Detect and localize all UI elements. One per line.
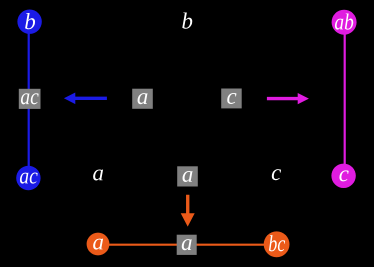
node a (orange circle, bottom left) — [87, 233, 110, 256]
node a (center graph, white letter left) — [93, 169, 103, 180]
wire: magenta edge ab–c (right graph) — [344, 22, 346, 176]
edge-label square a (on orange edge) — [177, 235, 197, 255]
arrow down (orange, center graph to bottom graph) — [181, 195, 195, 227]
edge-label square ac (on blue edge) — [19, 89, 41, 109]
node b (blue circle, top left) — [17, 10, 41, 34]
node bc (orange circle, bottom right) — [264, 231, 290, 257]
node c (magenta circle, right) — [331, 164, 355, 188]
wire: orange edge a–bc (bottom graph) — [98, 244, 277, 246]
arrow right (magenta, center graph to right graph) — [267, 93, 309, 104]
node ac (blue circle, left) — [16, 166, 40, 190]
wire: blue edge b–ac (left graph) — [28, 22, 30, 178]
arrow left (blue, center graph to left graph) — [64, 93, 107, 105]
edge-label square a (center graph, edge b–a) — [132, 89, 153, 109]
edge-label square a (center graph, edge a–c) — [177, 166, 198, 186]
edge-label square c (center graph, edge b–c) — [221, 89, 242, 109]
node c (center graph, white letter right) — [272, 169, 281, 180]
node ab (magenta circle, top right) — [332, 10, 357, 35]
node b (center graph, white letter top) — [182, 13, 192, 29]
